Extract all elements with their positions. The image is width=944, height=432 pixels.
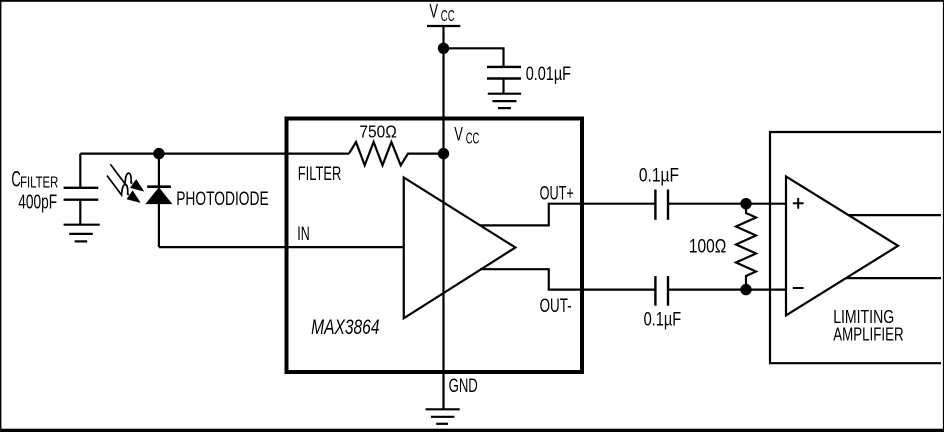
junction dot <box>740 198 751 209</box>
light arrows <box>107 164 144 203</box>
wire output top <box>848 214 941 216</box>
pin label VCC <box>454 124 479 147</box>
wire <box>668 289 786 291</box>
wire to bypass capacitor <box>444 48 504 67</box>
svg-text:CC: CC <box>441 8 455 25</box>
wire FILTER node <box>80 153 349 155</box>
svg-text:AMPLIFIER: AMPLIFIER <box>833 324 904 344</box>
resistor 100 ohm <box>689 204 756 290</box>
wire OUT+ <box>480 204 655 226</box>
wire VCC rail <box>442 26 444 409</box>
label LIMITING AMPLIFIER <box>833 307 904 345</box>
capacitor 0.1uF (top) <box>639 166 679 220</box>
wire IN <box>159 246 404 248</box>
label CFILTER 400pF <box>11 166 58 213</box>
svg-text:PHOTODIODE: PHOTODIODE <box>176 189 269 210</box>
svg-text:OUT-: OUT- <box>540 296 572 317</box>
power symbol VCC <box>427 2 460 26</box>
svg-text:OUT+: OUT+ <box>540 183 574 204</box>
svg-text:400pF: 400pF <box>18 191 57 213</box>
limiting amplifier box <box>770 132 941 363</box>
resistor 750 ohm <box>349 121 444 165</box>
svg-text:FILTER: FILTER <box>20 174 58 191</box>
capacitor 0.01uF <box>487 64 571 85</box>
wire output bottom <box>846 277 941 279</box>
svg-text:V: V <box>429 2 438 23</box>
ground <box>64 225 100 242</box>
svg-text:IN: IN <box>297 224 310 245</box>
IC U1 MAX3864 box <box>287 119 583 373</box>
photodiode D1 <box>146 154 171 248</box>
svg-text:GND: GND <box>449 376 478 397</box>
junction dot <box>438 148 449 159</box>
capacitor CFILTER 400pF <box>64 154 99 225</box>
wire OUT- <box>480 269 655 289</box>
ground <box>426 409 460 424</box>
svg-text:MAX3864: MAX3864 <box>311 316 379 339</box>
svg-text:FILTER: FILTER <box>298 164 342 185</box>
svg-text:0.1µF: 0.1µF <box>639 166 679 187</box>
junction dot <box>740 284 751 295</box>
svg-text:750Ω: 750Ω <box>359 121 396 141</box>
junction dot <box>153 148 164 159</box>
junction dot <box>438 43 449 54</box>
svg-text:CC: CC <box>466 130 480 147</box>
wire <box>502 79 504 94</box>
wire <box>668 203 786 205</box>
svg-text:0.1µF: 0.1µF <box>644 309 682 330</box>
svg-text:100Ω: 100Ω <box>689 237 726 258</box>
capacitor 0.1uF (bottom) <box>644 276 682 330</box>
svg-text:V: V <box>454 124 463 145</box>
op-amp U1 core triangle <box>404 178 516 319</box>
op-amp limiting amplifier <box>786 177 898 316</box>
ground <box>488 94 521 108</box>
svg-text:0.01µF: 0.01µF <box>526 64 571 85</box>
